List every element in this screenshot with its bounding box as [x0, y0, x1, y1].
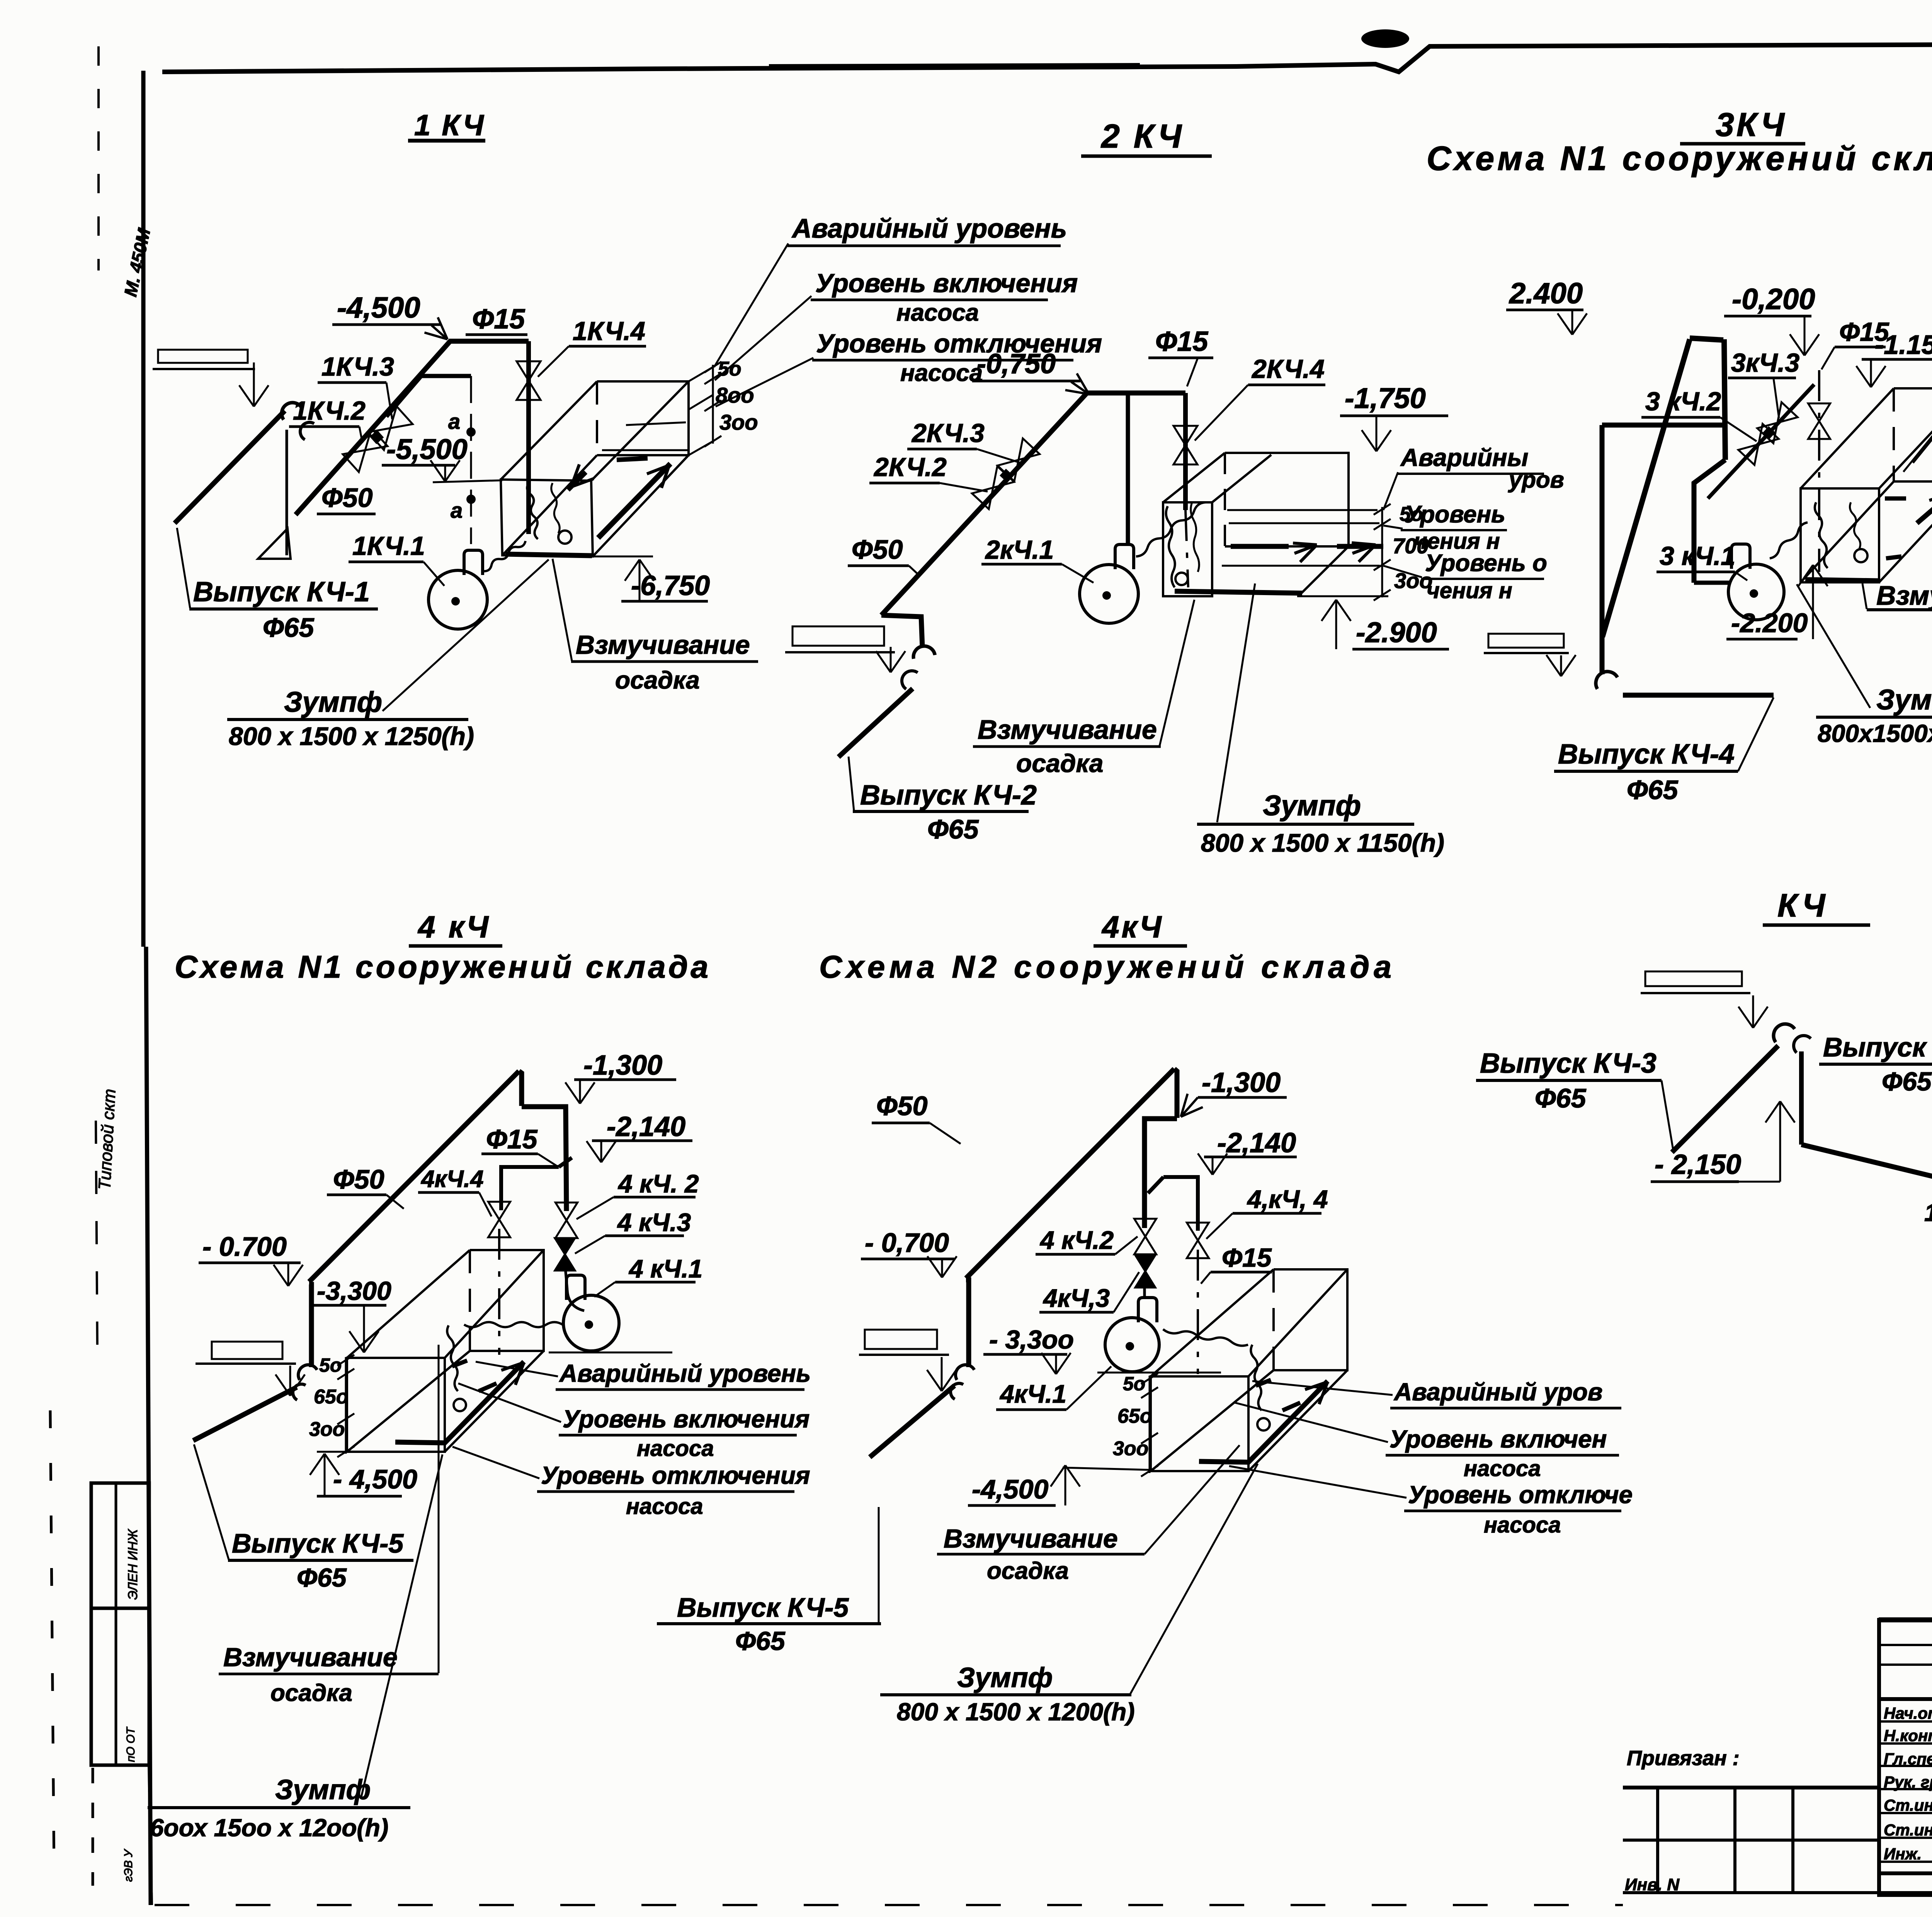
svg-text:-2.900: -2.900 [1356, 616, 1437, 648]
svg-text:3 кЧ.1: 3 кЧ.1 [1660, 541, 1735, 571]
svg-text:Ф15: Ф15 [1222, 1243, 1272, 1272]
svg-text:Аварийный уров: Аварийный уров [1393, 1378, 1603, 1406]
svg-text:насоса: насоса [626, 1494, 703, 1519]
svg-text:1КЧ.3: 1КЧ.3 [321, 352, 394, 381]
leader avar 4a [476, 1362, 558, 1376]
svg-text:Ф65: Ф65 [1882, 1067, 1932, 1096]
svg-text:Ф65: Ф65 [735, 1626, 786, 1656]
top border ink smudges [769, 66, 1140, 67]
valve 1KCh.3 [368, 407, 413, 450]
pump 3KCh.1 [1728, 564, 1784, 620]
svg-text:-5,500: -5,500 [386, 433, 468, 465]
names table rows [1879, 1644, 1932, 1646]
svg-text:65о: 65о [314, 1386, 349, 1408]
tank 4b thick bottom L [1199, 1381, 1328, 1462]
privyazan table [1623, 1786, 1879, 1789]
svg-text:Схема N1 сооружений склада: Схема N1 сооружений склада [175, 949, 711, 985]
svg-text:осадка: осадка [270, 1680, 352, 1706]
svg-text:18°: 18° [1924, 1199, 1932, 1226]
svg-text:2 КЧ: 2 КЧ [1100, 118, 1184, 155]
svg-text:4кЧ: 4кЧ [1101, 910, 1164, 944]
svg-text:Рук. гр.: Рук. гр. [1884, 1773, 1932, 1791]
right vertical d3a [1724, 339, 1725, 460]
drop to pump 4a [565, 1264, 567, 1290]
leader vkl 4b [1235, 1403, 1388, 1442]
tank d2 rim mid [1212, 455, 1271, 502]
valve 2KCh.4 [1173, 426, 1197, 464]
tank d1 dim line 50-800-300 [712, 365, 714, 444]
tail slope d3a [1694, 460, 1725, 583]
bottom-left stamp table [91, 1483, 149, 1765]
svg-text:Уровень: Уровень [1405, 501, 1505, 528]
svg-text:3 кЧ.2: 3 кЧ.2 [1645, 387, 1721, 416]
svg-text:2КЧ.2: 2КЧ.2 [873, 452, 947, 482]
svg-text:800 х 1500 х 1250(h): 800 х 1500 х 1250(h) [229, 722, 474, 750]
svg-text:Выпуск КЧ-5: Выпуск КЧ-5 [232, 1528, 404, 1558]
drawing frame top border [162, 43, 1932, 72]
svg-text:уров: уров [1508, 467, 1564, 493]
svg-text:КЧ: КЧ [1777, 887, 1828, 924]
svg-text:Уровень о: Уровень о [1425, 550, 1547, 577]
title block outer top line [1879, 1618, 1932, 1623]
svg-text:- 2,150: - 2,150 [1655, 1149, 1741, 1180]
hose d3a [1770, 522, 1808, 558]
valve on F15 d3a [1808, 403, 1830, 439]
upper outfall KCh [1645, 971, 1742, 986]
drop right of hook [1799, 1051, 1804, 1145]
svg-text:3оо: 3оо [1113, 1437, 1148, 1460]
outfall elbow d2 [881, 615, 922, 647]
tank 4b bottoms [1151, 1370, 1274, 1471]
leader to uroven otkl d1 [716, 358, 813, 407]
svg-text:65о: 65о [1117, 1405, 1152, 1427]
svg-text:Схема N1 сооружений склада: Схема N1 сооружений склада [1427, 139, 1932, 177]
hooks KCh top [1769, 1019, 1794, 1042]
ground level arrow [253, 362, 255, 371]
tank d2 dim 50-700-300 [1381, 507, 1383, 597]
plateau d3a [1690, 338, 1723, 340]
tank d1 sump squiggles [527, 483, 538, 539]
svg-text:4 кЧ.3: 4 кЧ.3 [617, 1208, 691, 1237]
tank d1 bottom near edge [593, 455, 689, 556]
svg-text:4 кЧ. 2: 4 кЧ. 2 [617, 1169, 699, 1198]
F15 branch horizontal 4a [501, 1167, 559, 1210]
leader avar 4b [1252, 1381, 1393, 1395]
svg-text:насоса: насоса [900, 360, 983, 386]
svg-text:- 0,700: - 0,700 [865, 1228, 949, 1258]
svg-text:Ф15: Ф15 [1155, 326, 1208, 357]
bottom border dashes [1623, 1891, 1932, 1894]
tank d1 level extension lines [689, 367, 713, 381]
leader to uroven vkl d1 [715, 296, 811, 380]
svg-text:-0,200: -0,200 [1732, 283, 1815, 316]
valve 1KCh.4 [517, 361, 541, 400]
ground culvert rect [158, 350, 248, 363]
tank d3a rims [1801, 388, 1894, 488]
pump 2KCh.1 [1080, 565, 1138, 623]
F15 dash into tank 4a [498, 1229, 500, 1355]
tank 4a dims [345, 1357, 347, 1454]
svg-text:Зумпф: Зумпф [284, 686, 382, 718]
svg-text:- 3,3оо: - 3,3оо [989, 1325, 1074, 1354]
extension line d2 bottom [1297, 595, 1388, 597]
outfall slope d2 lower [838, 689, 913, 757]
svg-text:4 кЧ: 4 кЧ [417, 910, 491, 944]
pump hose [483, 541, 526, 571]
svg-text:Взмучивание: Взмучивание [944, 1524, 1118, 1553]
svg-text:4 кЧ.2: 4 кЧ.2 [1039, 1226, 1114, 1254]
svg-text:-2,140: -2,140 [607, 1111, 685, 1142]
tank d2 rim left [1163, 453, 1225, 502]
svg-text:Ф65: Ф65 [297, 1563, 347, 1592]
svg-text:5о: 5о [1123, 1373, 1145, 1395]
svg-text:1КЧ.2: 1КЧ.2 [293, 396, 366, 425]
level line -5500 [433, 480, 502, 482]
svg-text:насоса: насоса [1464, 1456, 1541, 1481]
tank d3a thick bottom [1805, 580, 1879, 581]
branch pipe to pump riser [386, 376, 471, 417]
tank 4a thick bottom L [395, 1362, 524, 1443]
svg-text:гЭВ У: гЭВ У [122, 1849, 135, 1882]
big slope d3a [1602, 339, 1690, 637]
svg-text:-1,300: -1,300 [1202, 1067, 1281, 1098]
tank d2 agitation dashes [1231, 544, 1314, 549]
svg-text:Взмучивание: Взмучивание [223, 1643, 398, 1672]
outfall lower 4b [870, 1386, 954, 1457]
pump baseline 4b [1097, 1372, 1221, 1374]
tank d3a far face [1894, 388, 1932, 481]
svg-text:Ф50: Ф50 [321, 483, 373, 513]
standpipe [286, 430, 288, 555]
peak jog 4b [1174, 1069, 1177, 1118]
svg-text:осадка: осадка [987, 1558, 1069, 1584]
tank d3a squiggles [1815, 502, 1828, 568]
long slope 18deg [1801, 1145, 1932, 1267]
outfall hook 2 [297, 419, 314, 440]
tank d2 sump quad [1163, 502, 1212, 596]
tank 4a near face [347, 1358, 445, 1452]
svg-text:Уровень включения: Уровень включения [563, 1405, 810, 1433]
outfall mid 4b [966, 1280, 969, 1367]
hose 4a [464, 1322, 563, 1327]
outfall hook d3a [1592, 667, 1617, 689]
pump 4KCh.1 b [1105, 1318, 1159, 1372]
valve 4KCh.4 b [1187, 1223, 1209, 1258]
svg-text:Гл.спец.: Гл.спец. [1884, 1750, 1932, 1768]
tank 4b rims [1151, 1269, 1274, 1376]
outfall hook 1 [277, 398, 301, 420]
svg-text:Зумпф: Зумпф [1876, 684, 1932, 716]
tank d1 agitation pipe [598, 464, 670, 538]
svg-text:4,кЧ, 4: 4,кЧ, 4 [1247, 1185, 1328, 1213]
tank 4b agitation [1256, 1380, 1271, 1386]
svg-text:- 0.700: - 0.700 [202, 1232, 287, 1262]
svg-text:Ст.инж.: Ст.инж. [1884, 1821, 1932, 1839]
left vertical d3a [1600, 425, 1605, 674]
drawing frame left border [141, 71, 146, 947]
svg-text:1 КЧ: 1 КЧ [414, 109, 485, 142]
F15 branch jog 4a [559, 1158, 572, 1167]
top run 4a [522, 1107, 566, 1211]
svg-text:пО ОТ: пО ОТ [124, 1726, 137, 1762]
svg-text:4кЧ,3: 4кЧ,3 [1043, 1284, 1110, 1312]
valve 3KCh.2 v [1738, 424, 1779, 465]
F15 branch right 4b [1163, 1177, 1198, 1231]
drop to pump 4b [1143, 1280, 1146, 1297]
tank d2 sump squiggles [1166, 506, 1175, 587]
svg-text:Ст.инж.: Ст.инж. [1884, 1796, 1932, 1814]
ground rect 4a [212, 1342, 282, 1359]
svg-text:Ф50: Ф50 [876, 1091, 928, 1121]
svg-text:Привязан :: Привязан : [1627, 1747, 1740, 1770]
leader otkl 4b [1229, 1466, 1406, 1498]
svg-text:Ф65: Ф65 [927, 814, 979, 844]
tank 4a squiggles [447, 1325, 458, 1391]
svg-text:Выпуск КЧ-5: Выпуск КЧ-5 [677, 1592, 849, 1623]
left margin paper-edge dashes [97, 46, 100, 270]
svg-text:4 кЧ.1: 4 кЧ.1 [628, 1254, 702, 1283]
tank 4a far face [470, 1250, 544, 1351]
svg-text:Ф15: Ф15 [486, 1124, 538, 1154]
svg-text:800х1500х1о5о(h): 800х1500х1о5о(h) [1818, 720, 1932, 747]
pipe drop to tank with valve 1KCh.4 [526, 341, 531, 534]
tank d1 near face [501, 480, 593, 556]
drop pipe d2 to tank [1183, 393, 1188, 510]
drop pipe d2 into tank dashdot [1185, 510, 1188, 587]
tank 4b squiggles [1251, 1345, 1262, 1410]
standpipe base triangle [258, 529, 291, 559]
svg-text:-2.200: -2.200 [1731, 608, 1808, 638]
svg-text:3оо: 3оо [719, 410, 758, 434]
svg-text:Нач.отд.: Нач.отд. [1884, 1704, 1932, 1722]
slope pipe F50 with branch [296, 341, 529, 515]
svg-text:-1.150: -1.150 [1875, 330, 1932, 360]
leader vkl d2 [1383, 526, 1403, 529]
svg-text:а: а [451, 498, 463, 522]
svg-text:1КЧ.4: 1КЧ.4 [573, 316, 645, 346]
tank d1 water lines [602, 449, 689, 451]
names table thick rows [1879, 1697, 1932, 1701]
valve 4KCh.2 b [1134, 1219, 1156, 1254]
pump 4KCh.1 a [563, 1295, 619, 1351]
leader otkl 4a [452, 1447, 539, 1478]
tank d3a agitation [1917, 495, 1932, 523]
svg-text:800 х 1500 х 1200(h): 800 х 1500 х 1200(h) [897, 1698, 1135, 1726]
tank d1 rim right [591, 381, 689, 481]
svg-text:насоса: насоса [1484, 1512, 1561, 1538]
svg-text:Выпуск КЧ-3: Выпуск КЧ-3 [1480, 1048, 1656, 1079]
valve 4KCh.3 b filled [1135, 1255, 1155, 1288]
pump baseline 4a [549, 1352, 672, 1354]
svg-text:Зумпф: Зумпф [275, 1774, 371, 1805]
upper slope KCh [1672, 1046, 1778, 1152]
svg-text:1КЧ.1: 1КЧ.1 [352, 531, 425, 561]
ground rect d2 [793, 626, 884, 646]
outfall hooks d2 [912, 645, 935, 659]
svg-text:Ф50: Ф50 [333, 1164, 384, 1194]
outfall mid 4a [309, 1284, 311, 1367]
svg-text:насоса: насоса [637, 1436, 714, 1461]
peak jog 4a [519, 1071, 522, 1106]
tank 4a rims [347, 1250, 470, 1358]
leader avar d2 [1383, 472, 1398, 510]
svg-text:осадка: осадка [1016, 749, 1104, 777]
svg-text:ЭЛЕН ИНЖ: ЭЛЕН ИНЖ [126, 1529, 140, 1600]
svg-text:-4,500: -4,500 [337, 291, 420, 324]
junction square [370, 430, 384, 444]
section line a-a [470, 376, 472, 544]
svg-text:3оо: 3оо [309, 1418, 345, 1441]
F15 dash into tank 4b [1197, 1250, 1199, 1374]
title block left box [1879, 1620, 1932, 1895]
svg-text:Ф15: Ф15 [472, 304, 525, 335]
svg-text:3кЧ.3: 3кЧ.3 [1731, 348, 1799, 378]
svg-text:6оох 15оо х 12оо(h): 6оох 15оо х 12оо(h) [150, 1814, 388, 1842]
tank d1 bottom far edge [502, 455, 597, 555]
leader otkl d2 [1383, 566, 1422, 577]
tank d1 far face dashed edge [596, 381, 598, 455]
svg-text:Уровень отключения: Уровень отключения [541, 1461, 810, 1489]
tank 4a agitation [452, 1361, 467, 1366]
ground rect 4b [865, 1330, 937, 1349]
svg-text:Уровень отключе: Уровень отключе [1408, 1481, 1633, 1509]
svg-text:Уровень отключения: Уровень отключения [816, 329, 1102, 358]
pump 1KCh.1 [429, 570, 487, 629]
tank 4a bottoms [347, 1351, 470, 1452]
tank d1 rim left [501, 381, 597, 480]
svg-text:2КЧ.4: 2КЧ.4 [1251, 354, 1325, 384]
svg-text:-3,300: -3,300 [317, 1276, 391, 1306]
main slope 4b [966, 1069, 1174, 1278]
svg-text:Уровень включен: Уровень включен [1389, 1425, 1607, 1453]
svg-text:Ф65: Ф65 [263, 612, 315, 643]
valve 3KCh.3 v [1757, 402, 1798, 443]
ground rect d3a [1488, 634, 1564, 648]
tank d2 waterlines [1227, 509, 1378, 511]
svg-text:Уровень включения: Уровень включения [815, 269, 1078, 298]
tank d3a bottoms [1801, 481, 1894, 582]
svg-text:Зумпф: Зумпф [1263, 789, 1361, 822]
F15 drop d3a [1818, 370, 1820, 572]
valve 2KCh.2 on slope [972, 466, 1014, 509]
top run left 4b [1145, 1119, 1177, 1228]
svg-text:Выпуск КЧ-1: Выпуск КЧ-1 [193, 577, 370, 607]
outfall pipe vypusk KCh-1 [175, 411, 285, 523]
svg-text:-0,750: -0,750 [977, 349, 1056, 379]
svg-text:Взмучивание: Взмучивание [978, 714, 1157, 745]
tank d1 far face [597, 381, 689, 455]
leader to avariyny uroven d1 [714, 243, 788, 367]
main slope 4a [309, 1071, 519, 1282]
svg-text:2.400: 2.400 [1509, 277, 1583, 310]
svg-text:Выпуск КЧ- Ч: Выпуск КЧ- Ч [1823, 1032, 1932, 1062]
svg-text:Выпуск КЧ-2: Выпуск КЧ-2 [860, 780, 1037, 811]
svg-text:Инж.: Инж. [1884, 1845, 1922, 1863]
tank d3a near face [1801, 488, 1879, 582]
tank 4b near face [1151, 1376, 1248, 1471]
svg-text:насоса: насоса [896, 299, 979, 326]
tank 4b dims [1149, 1376, 1151, 1473]
svg-text:Взмучивание осадка: Взмучивание осадка [1876, 580, 1932, 611]
tank d2 thick bottom [1175, 591, 1302, 593]
svg-text:осадка: осадка [615, 666, 700, 694]
svg-text:-1,750: -1,750 [1345, 382, 1426, 414]
svg-text:4кЧ.4: 4кЧ.4 [420, 1166, 484, 1192]
hose 4b [1163, 1329, 1248, 1346]
slope pipe d2 [881, 393, 1185, 615]
svg-text:800 х 1500 х 1150(h): 800 х 1500 х 1150(h) [1201, 828, 1444, 857]
svg-text:2кЧ.1: 2кЧ.1 [985, 535, 1054, 565]
middle bar d3a [1602, 423, 1725, 428]
svg-text:-4,500: -4,500 [972, 1474, 1049, 1504]
tank d2 bottom edge [1298, 546, 1349, 596]
valve 4KCh.2 a [555, 1203, 577, 1238]
svg-text:Схема N2 сооружений склада: Схема N2 сооружений склада [819, 949, 1396, 985]
pump riser d2 [1126, 393, 1130, 543]
svg-text:Аварийный уровень: Аварийный уровень [791, 213, 1067, 243]
svg-text:3КЧ: 3КЧ [1716, 106, 1787, 143]
svg-text:-6,750: -6,750 [631, 570, 710, 601]
outfall line d3a [1623, 693, 1774, 698]
pump feed d3a [1694, 581, 1730, 585]
valve slope d3a [1708, 384, 1814, 498]
svg-text:2КЧ.3: 2КЧ.3 [911, 418, 985, 448]
tank d2 far face [1225, 453, 1349, 546]
svg-text:-1,300: -1,300 [583, 1050, 662, 1081]
F15 branch jog 4b [1148, 1177, 1163, 1193]
valve 4KCh.4 a [488, 1202, 510, 1237]
svg-text:Зумпф: Зумпф [957, 1662, 1053, 1693]
svg-text:Ф65: Ф65 [1535, 1083, 1587, 1113]
svg-text:- 4,500: - 4,500 [333, 1464, 417, 1494]
tank 4b far face [1274, 1269, 1347, 1370]
svg-text:-2,140: -2,140 [1217, 1128, 1296, 1158]
svg-text:Н.контр.: Н.контр. [1884, 1726, 1932, 1745]
valve 2KCh.3 on slope [998, 439, 1040, 481]
svg-text:Ф65: Ф65 [1627, 775, 1679, 805]
svg-text:а: а [448, 409, 460, 434]
svg-text:Ф50: Ф50 [852, 534, 903, 565]
ground line [153, 368, 255, 370]
pump hose d2 [1136, 502, 1206, 556]
valve 1KCh.2 [343, 429, 388, 472]
valve 4KCh.3 a filled [555, 1238, 575, 1271]
svg-text:чения н: чения н [1427, 578, 1512, 603]
leader vkl 4a [458, 1383, 561, 1422]
tank d1 thick bottom [505, 554, 592, 556]
tank d3a waterlines diagonal [1903, 415, 1932, 472]
outfall lower 4a [193, 1387, 297, 1441]
svg-text:Аварийный уровень: Аварийный уровень [559, 1359, 811, 1387]
svg-text:4кЧ.1: 4кЧ.1 [999, 1379, 1066, 1408]
svg-text:5о: 5о [319, 1354, 342, 1376]
svg-text:Выпуск КЧ-4: Выпуск КЧ-4 [1558, 739, 1735, 770]
svg-text:Взмучивание: Взмучивание [576, 630, 750, 660]
